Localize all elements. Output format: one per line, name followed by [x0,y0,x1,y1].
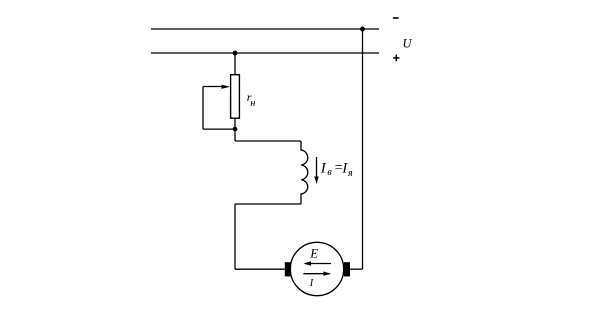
wire: right brush to right vertical [350,268,363,270]
plus polarity label [393,55,399,61]
wire: positive rail down to rheostat [234,53,236,75]
minus polarity label [393,17,399,19]
motor armature circle [290,242,343,295]
wire: field winding bottom horizontal [235,203,301,205]
left brush [285,262,291,276]
junction node on negative rail [360,27,365,32]
svg-text:н: н [250,98,255,109]
right brush [344,262,350,276]
positive supply rail [151,52,379,54]
svg-text:I: I [320,161,327,177]
wire: bypass loop bottom horizontal [203,128,235,130]
current direction arrow (right) [303,272,331,276]
EMF direction arrow (left) [303,261,331,265]
svg-text:E: E [309,246,318,261]
wire: left vertical down to armature [234,204,236,269]
junction node below resistor [233,127,238,132]
svg-text:I: I [309,278,314,289]
wire: right vertical from negative rail down to armature [362,29,364,269]
label I_в = I_я [320,161,353,180]
wire: bypass loop left vertical [202,87,204,130]
wire: resistor bottom down past junction [234,118,236,141]
label r_н [247,90,256,109]
svg-text:U: U [403,37,413,51]
wire: horizontal to field winding top [235,140,301,142]
resistor (rheostat) r_н body [231,75,240,119]
slider arrow of rheostat [203,85,230,89]
svg-text:в: в [327,167,332,178]
negative supply rail [151,28,379,30]
svg-text:я: я [347,168,353,179]
current direction arrow beside winding [314,157,318,184]
wire: horizontal to left brush [235,268,285,270]
junction node on positive rail [233,51,238,56]
inductor (series field winding) [301,141,308,204]
